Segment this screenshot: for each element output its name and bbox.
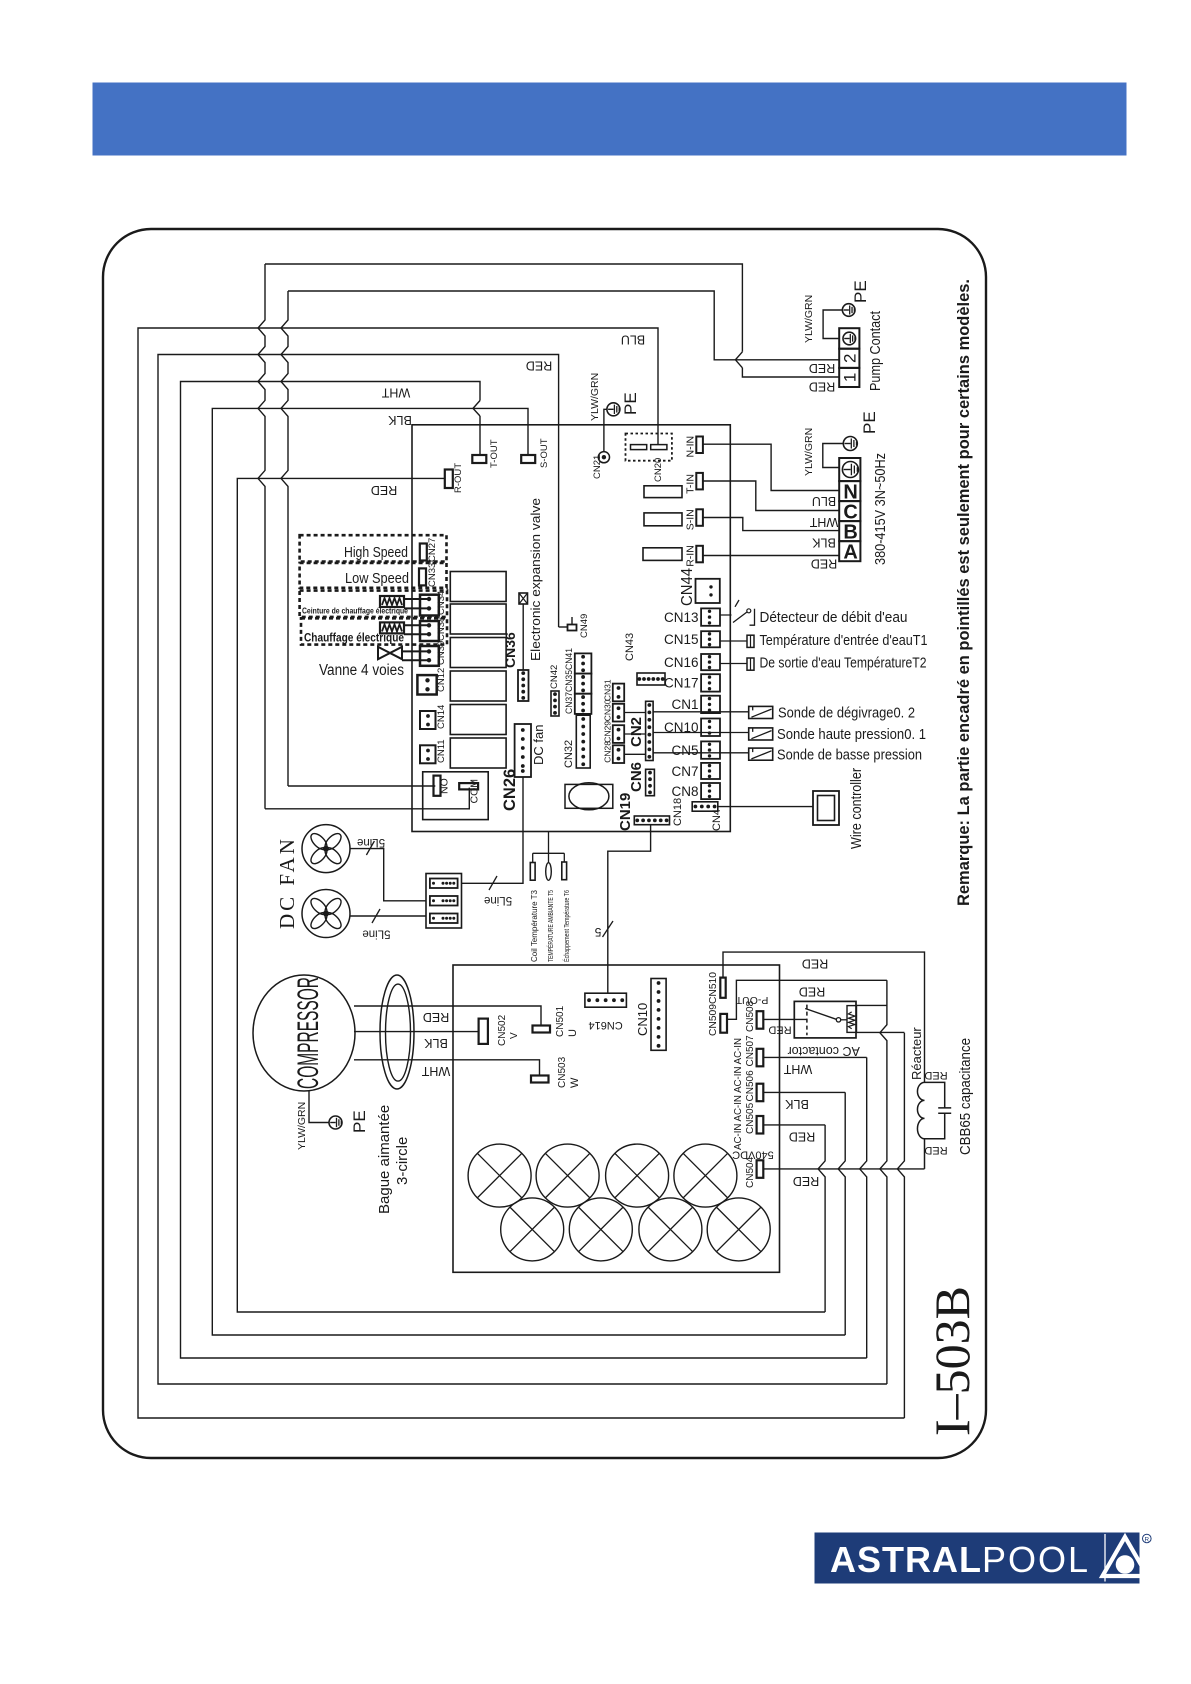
svg-text:NO: NO [439,778,451,794]
svg-text:CBB65 capacitance: CBB65 capacitance [957,1038,974,1155]
wire CN19 to CN614 [608,825,651,994]
svg-text:CN27: CN27 [427,538,438,562]
relay K5 [450,705,506,735]
terminal CN509 [720,1014,727,1033]
terminal CN505 [757,1116,764,1134]
terminal CN501 [533,1026,551,1033]
svg-text:RED: RED [811,557,837,571]
wire sensor comb [533,832,565,863]
wire PE to block [823,444,844,468]
wire compressor BLK [354,1031,479,1033]
wire contactor bottom link [857,1031,905,1033]
svg-text:CN13: CN13 [664,610,699,625]
terminal CN503 [531,1076,549,1083]
connector CN30 [613,704,624,722]
svg-text:RED: RED [768,1024,791,1036]
CN20 bar 1 [631,445,647,450]
svg-text:CN12: CN12 [436,668,447,692]
svg-text:CN31: CN31 [603,679,613,701]
svg-text:Coil Température T3: Coil Température T3 [530,889,539,962]
svg-text:CN44: CN44 [679,568,696,606]
svg-text:V: V [509,1032,520,1039]
svg-text:CN614: CN614 [588,1019,622,1031]
svg-text:Réacteur: Réacteur [909,1027,924,1080]
wire fan1 to block2 [351,849,427,901]
svg-text:CN4: CN4 [711,809,723,831]
connector CN15 [701,631,720,647]
svg-text:N-IN: N-IN [685,436,697,458]
svg-text:RED: RED [802,957,828,971]
wire valve to CN39 [402,651,429,660]
wire PE pump [823,310,842,339]
svg-text:CN5: CN5 [671,743,698,758]
connector CN27 [420,544,427,561]
svg-text:YLW/GRN: YLW/GRN [803,295,815,343]
svg-text:CN10: CN10 [635,1003,650,1036]
contactor fixed contact [806,1005,808,1036]
sensor T5 [546,863,552,881]
svg-text:CN503: CN503 [557,1056,568,1088]
flow switch symbol [720,612,747,623]
wire CN18 to controller [718,806,813,808]
svg-text:Détecteur de débit d'eau: Détecteur de débit d'eau [760,609,908,626]
module circle top 2 [536,1144,599,1207]
pump contact cell 2 [839,349,859,368]
fuse rect 2 [644,513,682,526]
fan motor 1 [302,825,350,873]
heater Chauffage [380,622,404,633]
svg-text:CN49: CN49 [579,614,590,638]
connector CN43 [637,673,665,685]
wire heater2 to CN38 [404,625,429,634]
svg-text:T-IN: T-IN [685,474,697,494]
fan connector housing [426,874,462,929]
terminal R-OUT [445,470,453,489]
wire riser x904.4 [897,1033,904,1418]
sonde haute symbol [749,728,773,740]
connector CN19 [634,816,669,825]
connector CN29 [613,725,624,743]
connector CN42 [551,691,559,716]
svg-text:1: 1 [841,373,860,382]
svg-text:CN32: CN32 [563,740,575,768]
relay K1 [450,572,506,602]
svg-text:AC-IN AC-IN AC-IN AC-IN: AC-IN AC-IN AC-IN AC-IN [733,1038,744,1150]
dashed box Low Speed [300,563,447,588]
wire CN504 bus [763,1168,924,1170]
slash fan1 wire [366,841,374,855]
outer rounded frame [103,229,986,1458]
terminal CN506 [757,1084,764,1102]
heater Ceinture [380,596,404,607]
sensor T3 [530,863,535,881]
fan motor 2 [302,890,350,938]
svg-text:WHT: WHT [421,1064,450,1078]
terminal T-IN [696,473,703,490]
fan connector block 2 [430,896,458,906]
terminal CN502 [479,1019,488,1044]
logo triangle [1103,1537,1148,1576]
terminal T-OUT [472,455,486,463]
wire jog pump1 vertical [735,352,742,368]
wire S-IN to terminal B [704,518,840,531]
svg-text:R: R [1145,1536,1150,1543]
sonde degivrage symbol [749,706,773,718]
svg-text:DC FAN: DC FAN [275,836,299,929]
connector CN33 [419,568,426,585]
transformer [565,784,613,808]
wire fan2 to block3 [350,915,426,917]
magnet ring outer [380,975,414,1089]
wire controller box [813,791,839,825]
connector CN35 [575,674,592,694]
connector CN17 [701,674,720,691]
svg-text:YLW/GRN: YLW/GRN [803,428,815,476]
svg-text:CN509CN510: CN509CN510 [708,972,719,1036]
svg-text:RED: RED [526,359,552,373]
wire CN507 [763,1056,866,1058]
svg-text:CN38: CN38 [436,617,447,641]
connector CN26 [515,724,531,777]
svg-text:S-IN: S-IN [685,509,697,530]
connector CN20 dashed box [626,434,672,461]
sensor T6 [562,862,567,880]
svg-text:CN17: CN17 [664,676,699,691]
svg-text:3-circle: 3-circle [394,1137,411,1185]
connector CN31 [613,684,624,702]
logo background [815,1533,1140,1584]
module circle top 3 [606,1144,669,1207]
wire heater1 to CN34 [404,599,429,608]
relay K3 [450,638,506,668]
svg-text:Electronic expansion valve: Electronic expansion valve [528,498,543,661]
connector CN36 [518,670,529,701]
svg-text:CN14: CN14 [436,705,447,729]
svg-text:CN11: CN11 [436,739,447,763]
capacitor CBB65 [925,1082,952,1138]
dashed box High Speed [300,535,447,561]
svg-text:Wire controller: Wire controller [848,768,865,849]
wire BLK loop (S-OUT to CN506) [212,408,845,1335]
svg-text:Sonde haute pression0. 1: Sonde haute pression0. 1 [777,726,926,743]
svg-text:PE: PE [851,280,870,303]
connector CN18 [692,802,718,811]
svg-text:CN15: CN15 [664,632,699,647]
svg-text:5Line: 5Line [484,894,512,906]
wire to CN49 [559,626,568,628]
magnet ring inner [386,984,411,1081]
connector CN16 [701,654,720,670]
svg-text:CN507: CN507 [745,1035,756,1067]
wire CN509 link [727,980,887,1019]
svg-text:PE: PE [860,411,879,434]
svg-text:CN29: CN29 [603,721,613,743]
terminal block cell B [839,521,860,541]
slash block1 wire [489,876,497,890]
relay K2 [450,604,506,634]
wire CN509 riser x886.9 [880,980,887,1384]
main controller PCB outline [412,425,730,832]
connector CN34 [420,595,439,616]
svg-text:Pump Contact: Pump Contact [867,310,884,391]
vertical x288 with jogs [281,291,288,786]
wire N-IN to terminal N [704,444,840,490]
wire compressor WHT [354,1060,540,1076]
svg-text:RED: RED [799,985,825,999]
svg-text:CN16: CN16 [664,655,699,670]
wire BLU loop (CN20 to contactor) [138,328,904,1418]
wire R-IN to terminal A [704,555,840,557]
svg-text:RED: RED [924,1144,947,1156]
svg-text:540VDC: 540VDC [732,1149,774,1161]
wire CN506 [763,1091,845,1093]
svg-text:CN21: CN21 [592,455,603,479]
connector CN7 [701,763,720,779]
svg-text:CN501: CN501 [555,1005,566,1037]
svg-text:R-OUT: R-OUT [453,463,464,493]
connector CN614 [585,993,627,1007]
svg-text:CN42: CN42 [549,665,560,689]
module circle top 1 [468,1144,531,1207]
ground PE (compressor) [329,1116,342,1129]
contact NO bar [434,776,441,796]
svg-text:CN1: CN1 [671,697,698,712]
module circle bottom 2 [569,1198,632,1261]
svg-text:5Line: 5Line [362,928,390,940]
svg-text:BLK: BLK [785,1097,809,1111]
connector CN14 [420,711,436,729]
svg-text:CN508: CN508 [745,1000,756,1032]
svg-text:RED: RED [809,361,835,375]
svg-text:T-OUT: T-OUT [489,439,500,468]
ground PE (CN21) [607,403,620,416]
connector CN11 [420,745,436,763]
connector CN37 [575,653,592,673]
fuse rect 1 [644,486,682,498]
wire RED loop (CN49 to contactor coil) [158,355,887,1385]
svg-text:RED: RED [809,380,835,394]
connector CN10 inverter [651,979,666,1051]
wire EEV to CN36 [522,604,524,670]
svg-text:CN2: CN2 [628,717,645,747]
svg-text:AC contactor: AC contactor [788,1044,860,1058]
svg-text:380-415V 3N~50Hz: 380-415V 3N~50Hz [873,453,889,565]
svg-text:Vanne 4 voies: Vanne 4 voies [319,662,404,679]
svg-text:DC fan: DC fan [531,725,546,765]
connector CN8 [701,783,720,799]
contactor moving contact [805,1009,836,1020]
svg-text:Sonde de basse pression: Sonde de basse pression [777,747,922,764]
svg-text:Bague aimantée: Bague aimantée [376,1105,393,1214]
terminal S-IN [696,509,703,526]
wire compressor RED [354,1006,541,1026]
svg-text:Low Speed: Low Speed [345,570,409,587]
wires CN2 to sondes [653,712,749,753]
svg-text:WHT: WHT [809,515,838,529]
connector CN2 [646,701,654,760]
svg-text:CN502: CN502 [497,1014,508,1046]
svg-text:High Speed: High Speed [344,544,408,561]
wire contactor top link [857,1004,887,1006]
svg-text:2: 2 [841,354,860,363]
svg-text:R-IN: R-IN [685,545,697,567]
connector CN21 [598,452,609,463]
wire CN506 riser x845.2 [838,1092,845,1335]
relay K6 [450,738,506,768]
module circle bottom 4 [707,1198,770,1261]
dashed box Ceinture [300,591,447,617]
ground PE (mains) [843,437,857,451]
connector CN38 [420,621,439,641]
svg-text:Remarque: La partie encadré en: Remarque: La partie encadré en pointillé… [954,279,973,906]
dashed box Chauffage [301,618,447,644]
blue header bar [93,83,1127,156]
connector CN1 [701,696,720,713]
connector CN10 [701,719,720,737]
wire NO to riser x288 [288,785,435,787]
svg-text:CN36: CN36 [502,632,518,668]
module circle bottom 1 [501,1198,564,1261]
svg-text:A: A [843,542,857,564]
svg-text:CN6: CN6 [628,762,645,792]
wire CN510 to reactor [723,952,925,1082]
wire CN507 riser x866.7 [860,1057,867,1358]
svg-text:CN506: CN506 [745,1070,756,1102]
terminal CN504 [757,1160,764,1178]
svg-text:PE: PE [350,1110,369,1133]
svg-text:5: 5 [594,925,601,939]
EEV symbol [519,593,528,604]
terminal CN510 [720,978,725,998]
connector CN39 [420,646,439,666]
svg-text:YLW/GRN: YLW/GRN [296,1102,308,1150]
svg-text:WHT: WHT [381,386,410,400]
svg-text:S-OUT: S-OUT [539,438,550,468]
svg-text:BLU: BLU [621,333,645,347]
wire CN505 riser x825.1 [818,1125,825,1312]
fuse rect 3 [643,548,682,561]
connector CN6 [646,769,655,795]
terminal block ground symbol [842,462,858,478]
svg-text:PE: PE [621,392,640,415]
svg-text:CN19: CN19 [617,793,634,831]
wire block1 to CN26 [462,777,524,883]
svg-text:De sortie d'eau TempératureT2: De sortie d'eau TempératureT2 [760,655,927,672]
module circle bottom 3 [639,1198,702,1261]
wire jog WHT vertical at BLK crossing [473,401,480,417]
pump contact cell 1 [839,368,859,387]
fan connector block 3 [430,914,458,924]
svg-text:CN28: CN28 [603,741,613,763]
connector CN5 [701,741,720,758]
wire T-IN to terminal C [704,481,840,511]
svg-text:Température d'entrée d'eauT1: Température d'entrée d'eauT1 [760,632,928,649]
inverter power board outline [453,965,780,1272]
terminal S-OUT [521,455,535,463]
sensor T2 symbol [720,663,747,665]
svg-text:W: W [569,1077,581,1088]
compressor circle [253,975,355,1091]
contact COM bar [459,783,478,789]
svg-text:CN26: CN26 [501,769,519,811]
svg-text:CN7: CN7 [671,764,698,779]
svg-text:RED: RED [423,1010,449,1024]
svg-text:Échappement Température T6: Échappement Température T6 [562,890,571,962]
terminal CN507 [757,1049,764,1067]
AC contactor box [794,1001,856,1038]
connector CN49 [568,625,577,631]
contactor coil [847,1006,857,1033]
svg-text:U: U [567,1029,579,1037]
wire WHT loop (T-OUT to CN507) [181,382,867,1359]
svg-text:CN30: CN30 [603,699,613,721]
connector CN13 [701,608,720,625]
svg-text:COMPRESSOR: COMPRESSOR [292,977,325,1089]
svg-text:WHT: WHT [783,1062,812,1076]
svg-text:RED: RED [371,483,397,497]
sonde basse symbol [749,748,773,760]
vertical x265 with jogs [258,264,265,809]
relay K4 [450,671,506,701]
svg-text:CN8: CN8 [671,784,698,799]
wire COM return [265,788,469,809]
wire CN21 to PE [604,409,607,451]
svg-text:CN33: CN33 [427,563,438,587]
module circle top 4 [674,1144,737,1207]
connector CN12 [417,675,436,694]
wire compressor PE [309,1091,329,1123]
pump contact PE cell [839,328,859,349]
slash fan2 wire [372,909,380,923]
svg-text:CN39: CN39 [436,641,447,665]
svg-text:CN20: CN20 [653,458,664,482]
svg-text:Sonde de dégivrage0. 2: Sonde de dégivrage0. 2 [778,705,915,722]
terminal block cell N [839,481,860,501]
svg-text:RED: RED [793,1174,819,1188]
connector CN32 [576,715,590,768]
terminal N-IN [696,437,703,454]
wire CN508 to contactor [763,1018,807,1020]
wire pump-contact 1 [265,264,839,377]
ground PE (pump) [842,304,855,317]
connector CN44 [696,579,720,603]
svg-text:TEMPÉRATURE AMBIANTE T5: TEMPÉRATURE AMBIANTE T5 [546,890,555,962]
svg-text:COM: COM [469,779,481,804]
fan connector block 1 [430,879,458,889]
CN20 bar 2 [651,445,667,450]
svg-text:CN18: CN18 [672,798,684,826]
svg-text:CN505: CN505 [745,1102,756,1134]
connector CN28 [613,745,624,763]
logo separator [1104,1534,1106,1582]
wire CN505 [763,1124,825,1126]
svg-text:ASTRALPOOL: ASTRALPOOL [830,1539,1090,1580]
svg-text:CN43: CN43 [624,633,636,661]
svg-text:RED: RED [789,1130,815,1144]
logo registered mark [1143,1534,1152,1543]
svg-text:BLK: BLK [812,536,836,550]
slash CN614 wire [603,921,614,937]
terminal block cell A [839,541,860,561]
terminal block cell C [839,501,860,521]
terminal R-IN [696,546,703,563]
connector CN41 [575,694,592,714]
svg-text:RED: RED [924,1069,947,1081]
svg-text:BLK: BLK [424,1036,448,1050]
svg-text:BLK: BLK [388,413,412,427]
svg-text:BLU: BLU [812,494,836,508]
wires CN30/29/28 to CN2 [624,713,645,755]
